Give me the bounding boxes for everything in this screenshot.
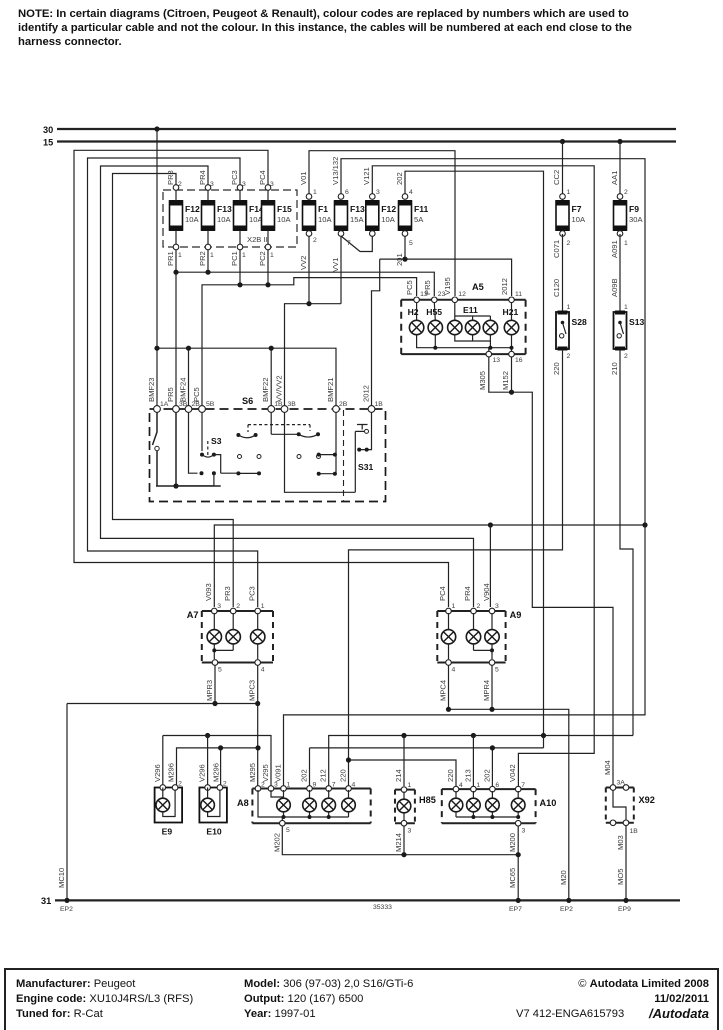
wire fog feed net 212/214/213 (A8/H85/A10) (329, 736, 633, 787)
svg-text:A9: A9 (510, 610, 522, 620)
svg-text:212: 212 (319, 769, 328, 782)
fuse F1 body (303, 201, 316, 230)
svg-text:VV1: VV1 (331, 258, 340, 272)
svg-text:MC10: MC10 (57, 868, 66, 888)
wire A7 internals (214, 613, 257, 630)
svg-text:F1: F1 (318, 204, 328, 214)
svg-text:2012: 2012 (362, 385, 371, 402)
node F14 bottom pin (237, 244, 243, 250)
svg-text:3: 3 (270, 181, 274, 188)
svg-text:220: 220 (552, 362, 561, 375)
node F11 bottom pin (402, 231, 408, 237)
wire PC3 net (F14 top to A7 pin 1) (88, 158, 258, 607)
svg-text:PC3: PC3 (248, 586, 257, 601)
connector X92 box (606, 788, 634, 823)
svg-text:4: 4 (409, 189, 413, 196)
svg-text:2: 2 (178, 181, 182, 188)
svg-text:4: 4 (459, 782, 463, 789)
node bus15 junction F9 (617, 139, 622, 144)
node A8 bottom pin 5 (280, 820, 286, 826)
node F12b bottom pin (370, 231, 376, 237)
fuse F14 body (234, 201, 247, 230)
svg-text:4: 4 (261, 667, 265, 674)
svg-text:PC4: PC4 (258, 170, 267, 185)
svg-text:PC5: PC5 (192, 387, 201, 402)
svg-text:35333: 35333 (373, 904, 392, 911)
svg-text:213: 213 (463, 769, 472, 782)
wire V121 net (F12 top down right side) (372, 166, 594, 786)
svg-text:EP9: EP9 (618, 906, 631, 913)
svg-text:V093: V093 (204, 583, 213, 601)
svg-text:15: 15 (43, 138, 53, 148)
svg-text:30A: 30A (629, 215, 643, 224)
svg-text:M296: M296 (167, 763, 176, 782)
svg-text:3: 3 (376, 189, 380, 196)
node EP2 left (64, 898, 69, 903)
svg-text:3: 3 (522, 828, 526, 835)
svg-text:1: 1 (408, 782, 412, 789)
node H85 bottom pin (401, 820, 407, 826)
svg-text:220: 220 (446, 769, 455, 782)
svg-text:10A: 10A (381, 215, 395, 224)
svg-text:VV2: VV2 (299, 256, 308, 270)
wire V01 net (F1 top to A5 pin 12 V195) (309, 151, 455, 296)
svg-text:S31: S31 (358, 462, 374, 472)
svg-text:M214: M214 (394, 833, 403, 852)
node A7 ground junctions (212, 701, 217, 706)
svg-text:PR5: PR5 (166, 387, 175, 402)
svg-text:C071: C071 (552, 240, 561, 258)
svg-text:C120: C120 (552, 279, 561, 297)
node VV junction (306, 301, 311, 306)
node S6 pin 3B x284.5 (281, 406, 288, 413)
svg-text:MPC4: MPC4 (439, 680, 448, 701)
wire bus 30 (57, 128, 676, 130)
svg-text:4: 4 (452, 667, 456, 674)
svg-text:PC5: PC5 (405, 280, 414, 295)
svg-text:202: 202 (300, 769, 309, 782)
svg-text:3: 3 (242, 181, 246, 188)
fuse F12 body (170, 201, 183, 230)
wire fog ground/202 net (177, 736, 544, 787)
node X92 bottom pin left (610, 820, 616, 826)
wire F9 feed from bus 15 (619, 142, 621, 201)
wire BMF bus (bus30 to S6 pins) (157, 129, 336, 406)
fuse F11 body (399, 201, 412, 230)
svg-text:V091: V091 (274, 764, 283, 782)
svg-text:30: 30 (43, 125, 53, 135)
node F15 top pin (265, 185, 271, 191)
wire M03/MO5 (X92 to EP9) (625, 825, 627, 900)
node F9 top pin (617, 194, 623, 200)
wire lamp ground net (M202/M214/M200 to EP7) (282, 826, 518, 901)
lamp A10 lamps (449, 798, 463, 812)
node PC junctions (237, 282, 242, 287)
lamp E9 (155, 788, 183, 823)
node X92 top pin 2 (623, 785, 629, 791)
node BMF junctions (154, 346, 159, 351)
svg-text:X2B II: X2B II (247, 235, 268, 244)
svg-text:M03: M03 (616, 835, 625, 850)
svg-text:F15: F15 (277, 204, 292, 214)
lamp H85 lamp (397, 799, 411, 813)
node F13 bottom pin (205, 244, 211, 250)
svg-text:6: 6 (345, 189, 349, 196)
svg-text:H85: H85 (419, 795, 436, 805)
lamp unit A7 (202, 611, 273, 663)
svg-text:11: 11 (515, 291, 522, 298)
svg-text:V195: V195 (443, 277, 452, 295)
wire A7 ground net (MPR3/MPC3 to EP2) (67, 665, 258, 900)
svg-text:V296: V296 (153, 764, 162, 782)
svg-text:1B: 1B (375, 401, 384, 408)
node A8 pin 4 (346, 786, 352, 792)
svg-text:PC1: PC1 (230, 251, 239, 266)
node F13b bottom pin (338, 231, 344, 237)
svg-text:3: 3 (210, 181, 214, 188)
svg-text:EP2: EP2 (560, 906, 573, 913)
wire PR net (F12/F13 bottoms to S6 3B and A5 pin 23) (176, 250, 434, 406)
node F14 top pin (237, 185, 243, 191)
svg-text:PR1: PR1 (166, 251, 175, 266)
svg-text:1: 1 (287, 782, 291, 789)
svg-text:3B: 3B (288, 401, 297, 408)
svg-text:2: 2 (223, 781, 227, 788)
node S6 pin 1B x271.2 (268, 406, 275, 413)
svg-text:1: 1 (624, 240, 628, 247)
lamp A8 lamps (277, 798, 291, 812)
fuse F7 body (556, 201, 569, 230)
svg-text:2012: 2012 (500, 278, 509, 295)
svg-text:BMF22: BMF22 (261, 378, 270, 402)
node F12 top pin (173, 185, 179, 191)
svg-text:10A: 10A (318, 215, 332, 224)
wire V091 net (right vertical to A8 pin 1) (284, 525, 646, 786)
node 220 branch junction (346, 757, 351, 762)
wire A5 internals (417, 302, 512, 320)
wire position-lamp feed (E9/E10/A8 V295) (163, 736, 271, 787)
node F7 top pin (560, 194, 566, 200)
fuse F15 body (262, 201, 275, 230)
lamp H55 (428, 320, 442, 334)
wire S6 3B drop (175, 412, 177, 486)
svg-text:1: 1 (210, 252, 214, 259)
connector X2B II dashed box (163, 190, 297, 247)
svg-text:V296: V296 (198, 764, 207, 782)
svg-text:PR4: PR4 (198, 170, 207, 185)
svg-text:214: 214 (394, 769, 403, 782)
wire 210 net (S13 down to fog wire) (620, 350, 633, 736)
wire VV net (F1/F13 bottoms to S6 pin 3B) (285, 236, 342, 409)
svg-text:2: 2 (236, 603, 240, 610)
node EP2 mid (566, 898, 571, 903)
svg-text:1: 1 (313, 189, 317, 196)
wire PR3 net (F12 top to A7 pin 2) (113, 174, 234, 608)
node A8 pin 7 (326, 786, 332, 792)
svg-text:M200: M200 (508, 833, 517, 852)
svg-text:MPC3: MPC3 (248, 680, 257, 701)
wire A9 ground net (MPC4/MPR4 to EP2 M20) (449, 665, 569, 900)
svg-text:CC2: CC2 (552, 170, 561, 185)
svg-text:5: 5 (218, 667, 222, 674)
svg-text:2: 2 (178, 781, 182, 788)
svg-text:2: 2 (567, 353, 571, 360)
lamp H2 (409, 320, 423, 334)
svg-text:10A: 10A (572, 215, 586, 224)
svg-text:A10: A10 (540, 798, 557, 808)
svg-text:210: 210 (610, 362, 619, 375)
switch S28 (556, 312, 569, 349)
svg-text:E9: E9 (162, 827, 173, 837)
svg-text:1: 1 (178, 252, 182, 259)
svg-text:M202: M202 (272, 833, 281, 852)
svg-text:31: 31 (41, 896, 51, 906)
svg-text:E10: E10 (206, 827, 222, 837)
node S6 pin 1B x371.5 (368, 406, 375, 413)
node A5 bottom pin 16 (509, 351, 515, 357)
wire F7 feed from bus 15 (562, 142, 564, 201)
node EP7 (516, 898, 521, 903)
svg-text:7: 7 (332, 782, 336, 789)
svg-text:BMF23: BMF23 (147, 378, 156, 402)
node F7 bottom pin (560, 231, 566, 237)
svg-text:1: 1 (624, 304, 628, 311)
svg-text:2: 2 (624, 189, 628, 196)
svg-text:A091: A091 (610, 240, 619, 258)
wire 220 net (S28 to A8 pin4 / A10 pin4) (349, 350, 563, 786)
node F15 bottom pin (265, 244, 271, 250)
svg-text:1B: 1B (630, 828, 639, 835)
svg-text:M296: M296 (211, 763, 220, 782)
node A8 pin 9 (307, 786, 313, 792)
node H85 top pin (401, 787, 407, 793)
svg-text:202: 202 (395, 172, 404, 185)
fuse F13b body (335, 201, 348, 230)
svg-text:MPR4: MPR4 (482, 680, 491, 701)
wire 201/2012 net (F11 bottom to S6 1B and A5 pin 11) (372, 259, 512, 406)
svg-text:S3: S3 (211, 436, 222, 446)
wire X92 internal (613, 790, 626, 821)
svg-text:PR5: PR5 (423, 280, 432, 295)
svg-text:A5: A5 (472, 282, 484, 292)
wire S6 internal separator (343, 410, 345, 501)
svg-text:10A: 10A (185, 215, 199, 224)
svg-text:7: 7 (521, 782, 525, 789)
node A10 pin 6 (490, 786, 496, 792)
wire A9 internals (449, 613, 493, 630)
node F13 top pin (205, 185, 211, 191)
wire A8 internals (271, 790, 349, 798)
svg-text:M152: M152 (501, 371, 510, 390)
svg-text:12: 12 (458, 291, 466, 298)
wire bus 15 (57, 140, 676, 142)
node X92 pin 1B (623, 820, 629, 826)
node EP9 (623, 898, 628, 903)
wire A10 internals (456, 791, 518, 798)
node F1 bottom pin (306, 231, 312, 237)
wire A09B (F9 to S13) (619, 234, 621, 311)
switch assembly S6 dashed box (150, 409, 386, 502)
fuse F13 body (202, 201, 215, 230)
svg-text:MC65: MC65 (508, 868, 517, 888)
node A5 top pin 23 (432, 297, 438, 303)
node F12 bottom pin (173, 244, 179, 250)
node A5 top pin 11 (509, 297, 515, 303)
wire bus 31 (55, 899, 680, 901)
lamp unit A8 box (252, 789, 370, 824)
switch S6 middle contacts (248, 424, 310, 426)
lamp unit A9 (437, 611, 505, 663)
svg-text:AA1: AA1 (610, 171, 619, 185)
svg-text:3: 3 (408, 828, 412, 835)
lamp unit H85 box (395, 790, 415, 824)
svg-text:F13: F13 (217, 204, 232, 214)
svg-text:4: 4 (352, 782, 356, 789)
svg-text:PC4: PC4 (438, 586, 447, 601)
svg-text:BMF21: BMF21 (326, 378, 335, 402)
fuse F9 body (614, 201, 627, 230)
svg-text:PR2: PR2 (198, 251, 207, 266)
svg-text:A8: A8 (237, 798, 249, 808)
node A5 lamp bus junctions (433, 346, 437, 350)
switch S6 contact 1A (153, 412, 158, 445)
svg-text:PR3: PR3 (223, 586, 232, 601)
wire V13/132 net (F13 top to right-side vertical) (341, 159, 645, 525)
node S6 pin 2B x188.5 (185, 406, 192, 413)
svg-text:M20: M20 (559, 870, 568, 885)
svg-text:PC2: PC2 (258, 251, 267, 266)
node A5 bottom pin 13 (486, 351, 492, 357)
node A10 pin 4 (453, 786, 459, 792)
node F12b top pin (370, 194, 376, 200)
wire F12b bottom jog to F13b (341, 236, 372, 252)
lamp H21 (504, 320, 518, 334)
lamp unit A5 box (401, 300, 525, 354)
svg-text:2B: 2B (339, 401, 348, 408)
node S6 pin 3B x176 (173, 406, 180, 413)
node F1 top pin (306, 194, 312, 200)
svg-text:MPR3: MPR3 (205, 680, 214, 701)
fuse F12b body (366, 201, 379, 230)
svg-text:F13: F13 (350, 204, 365, 214)
svg-text:A7: A7 (187, 610, 199, 620)
node A8 pin 2 (255, 786, 261, 792)
svg-text:S6: S6 (242, 396, 253, 406)
svg-text:PR4: PR4 (463, 586, 472, 601)
svg-text:5: 5 (409, 240, 413, 247)
node S6 pin 1A x157 (154, 406, 161, 413)
node bus15 junction F7 (560, 139, 565, 144)
node A8 pin 3 (268, 786, 274, 792)
wire 202 net (F11 top down right side) (405, 171, 544, 735)
svg-text:PR3: PR3 (166, 170, 175, 185)
svg-text:PC3: PC3 (230, 170, 239, 185)
svg-text:1: 1 (452, 603, 456, 610)
svg-text:V042: V042 (508, 764, 517, 782)
node S6 pin 2B x336 (333, 406, 340, 413)
svg-text:EP2: EP2 (60, 906, 73, 913)
svg-text:1: 1 (270, 252, 274, 259)
svg-text:1: 1 (476, 782, 480, 789)
svg-text:1: 1 (567, 189, 571, 196)
lamp E11 group (448, 320, 462, 334)
svg-text:1: 1 (567, 304, 571, 311)
svg-text:F12: F12 (185, 204, 200, 214)
node S6 pin 5B x202 (199, 406, 206, 413)
svg-text:V904: V904 (482, 583, 491, 601)
svg-text:H21: H21 (503, 307, 519, 317)
wire PR4 net (F13 top to A9 pin 2) (101, 166, 474, 607)
svg-text:E11: E11 (463, 305, 478, 315)
svg-text:X92: X92 (639, 795, 655, 805)
svg-text:M295: M295 (248, 763, 257, 782)
node F13b top pin (338, 194, 344, 200)
svg-text:M305: M305 (478, 371, 487, 390)
svg-text:10A: 10A (217, 215, 231, 224)
svg-text:1: 1 (242, 252, 246, 259)
node F11 bottom junction (402, 257, 407, 262)
svg-text:6: 6 (495, 782, 499, 789)
svg-text:2: 2 (624, 353, 628, 360)
svg-text:3: 3 (217, 603, 221, 610)
node F11 top pin (402, 194, 408, 200)
lamp E10 (199, 788, 227, 823)
svg-text:V121: V121 (362, 167, 371, 185)
node A5 top pin 12 (452, 297, 458, 303)
wire PC4 net (F15 top to A9 pin 1) (74, 150, 449, 607)
node A10 pin 1 (471, 786, 477, 792)
node M305/M152 junction (509, 390, 514, 395)
switch S13 (614, 312, 627, 349)
svg-text:M04: M04 (603, 760, 612, 775)
node A10 bottom pin 3 (515, 820, 521, 826)
svg-text:A09B: A09B (610, 278, 619, 297)
svg-text:S28: S28 (572, 317, 588, 327)
lamp unit A10 box (442, 789, 536, 823)
svg-text:MO5: MO5 (616, 869, 625, 885)
svg-text:15A: 15A (350, 215, 364, 224)
node A5 top pin 13 (414, 297, 420, 303)
svg-text:2: 2 (477, 603, 481, 610)
svg-text:5: 5 (286, 827, 290, 834)
svg-text:BMF24: BMF24 (179, 378, 188, 402)
svg-text:10A: 10A (277, 215, 291, 224)
svg-text:S13: S13 (629, 317, 645, 327)
svg-text:F11: F11 (414, 204, 429, 214)
node A9 ground junctions (446, 707, 451, 712)
svg-text:1: 1 (261, 603, 265, 610)
node A10 pin 7 (515, 786, 521, 792)
svg-text:F12: F12 (381, 204, 396, 214)
svg-text:EP7: EP7 (509, 906, 522, 913)
svg-text:202: 202 (482, 769, 491, 782)
wire A5 ground net (M305/M152 to X92 pin 3A) (489, 357, 613, 787)
svg-text:5A: 5A (414, 215, 424, 224)
svg-text:5: 5 (495, 667, 499, 674)
svg-text:220: 220 (339, 769, 348, 782)
svg-text:F7: F7 (572, 204, 582, 214)
svg-text:VV/VV2: VV/VV2 (275, 375, 284, 402)
svg-text:5B: 5B (206, 401, 215, 408)
svg-text:3: 3 (495, 603, 499, 610)
svg-text:V01: V01 (299, 171, 308, 185)
wire PC net (F14/F15 bottoms to S6 5B and A5 pin 13) (202, 250, 417, 406)
node X92 pin 3A (610, 785, 616, 791)
svg-text:V295: V295 (261, 764, 270, 782)
svg-text:13: 13 (493, 357, 501, 364)
node F9 bottom pin (617, 231, 623, 237)
svg-text:16: 16 (515, 357, 523, 364)
